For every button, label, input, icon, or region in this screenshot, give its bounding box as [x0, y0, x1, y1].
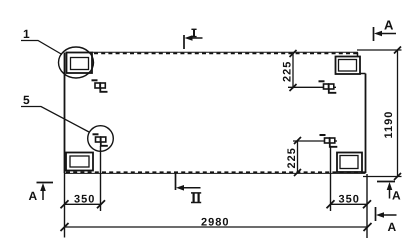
- tick 225 bottom lower: [294, 169, 301, 176]
- embedded fixture mark M4 (right bottom): [320, 135, 338, 147]
- dimension 225 top line: [292, 54, 294, 89]
- section A bottom-left arrow: [40, 183, 46, 200]
- tick 350 left b: [97, 200, 105, 208]
- dimension 1190 line: [397, 50, 399, 177]
- panel left edge: [64, 53, 66, 174]
- lifting loop top-right inner: [339, 60, 357, 72]
- section A bottom-right-left arrow: [376, 212, 397, 218]
- tick 1190 bottom: [394, 173, 401, 180]
- panel top edge (dashed): [92, 52, 358, 53]
- dimension 350 right line: [331, 203, 368, 205]
- tick 2980 right: [364, 223, 372, 231]
- svg-text:A: A: [29, 189, 38, 203]
- leader line of label 1: [21, 41, 62, 55]
- section A bottom-right-up arrow: [387, 182, 393, 199]
- embedded fixture mark M2 (in callout 5): [93, 134, 108, 146]
- panel right edge: [365, 74, 367, 174]
- tick 225 top upper: [290, 50, 297, 57]
- section A bottom-right-left cut line: [375, 207, 377, 221]
- section A top-right arrow: [374, 31, 396, 37]
- section I arrow: [185, 35, 203, 41]
- embedded fixture mark M1 (near top-left loop): [92, 80, 108, 92]
- tick 350 left a: [61, 200, 69, 208]
- extension line left (below panel): [64, 173, 66, 238]
- extension line from 225 top to fixture M3: [288, 86, 336, 88]
- lifting loop bottom-left inner: [70, 156, 89, 167]
- tick 225 top lower: [290, 84, 297, 91]
- lifting loop bottom-right outer: [337, 153, 362, 173]
- svg-text:1190: 1190: [383, 111, 395, 139]
- extension line 1190 bottom: [363, 176, 402, 178]
- lifting loop top-left inner: [71, 58, 89, 70]
- tick 2980 left: [61, 223, 69, 231]
- extension line right (below panel): [366, 174, 368, 238]
- svg-text:2980: 2980: [201, 217, 229, 229]
- svg-text:225: 225: [282, 61, 294, 82]
- top-right corner bottom step wire: [360, 73, 366, 75]
- tick 225 bottom upper: [294, 137, 301, 144]
- callout circle 1: [59, 47, 94, 78]
- top-right corner step wire: [357, 53, 359, 58]
- callout circle 5: [88, 126, 114, 152]
- tick 350 right b: [363, 200, 371, 208]
- section I cut line: [183, 35, 185, 49]
- lifting loop bottom-left outer: [66, 153, 93, 171]
- section II cut line: [175, 173, 177, 191]
- wire from fixture M4 down to 350 dimension: [330, 147, 332, 211]
- lifting loop top-right outer: [336, 57, 361, 75]
- svg-text:A: A: [388, 220, 397, 234]
- label II: [191, 193, 201, 203]
- svg-text:225: 225: [286, 147, 298, 168]
- svg-text:350: 350: [74, 194, 95, 206]
- extension line from 225 bottom to fixture M4: [293, 140, 337, 142]
- tick 1190 top: [394, 47, 401, 54]
- svg-text:A: A: [384, 18, 394, 33]
- section A bottom-right-up cut line: [377, 181, 395, 183]
- label I: [191, 29, 196, 36]
- embedded fixture mark M3 (right top): [319, 81, 337, 93]
- svg-text:5: 5: [23, 93, 30, 107]
- svg-text:A: A: [392, 189, 401, 203]
- section II arrow: [176, 185, 201, 191]
- lifting loop top-left outer: [67, 53, 93, 74]
- tick 350 right a: [327, 200, 335, 208]
- dimension 350 left line: [65, 203, 102, 205]
- dimension 2980 line: [65, 226, 368, 228]
- section A top-right cut line: [373, 27, 375, 41]
- wire from fixture M2 down to 350 dimension: [100, 146, 102, 211]
- panel bottom edge (dashed): [64, 172, 366, 173]
- dimension 225 bottom line: [297, 141, 299, 173]
- section A bottom-left cut line: [37, 182, 54, 184]
- svg-text:350: 350: [339, 194, 360, 206]
- lifting loop bottom-right inner: [340, 156, 358, 169]
- extension line 1190 top: [357, 49, 402, 51]
- leader line of label 5: [21, 107, 89, 133]
- svg-text:1: 1: [23, 27, 30, 41]
